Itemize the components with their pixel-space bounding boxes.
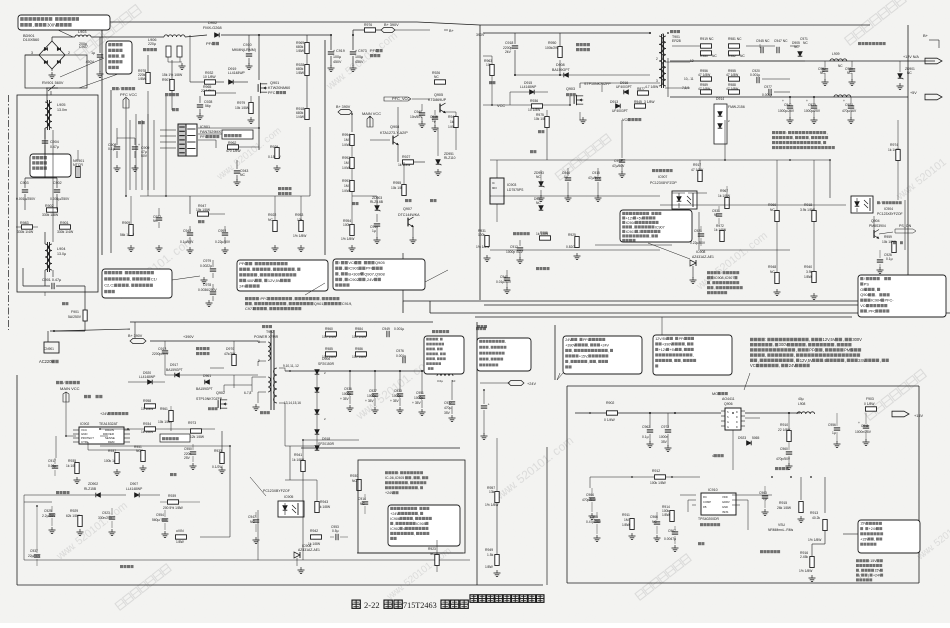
svg-text:100µ: 100µ (355, 55, 363, 59)
wire (358, 440, 360, 483)
svg-text:R993: R993 (342, 179, 350, 183)
svg-text:R950: R950 (548, 41, 556, 45)
svg-text:+390V: +390V (183, 335, 194, 339)
svg-text:R953: R953 (295, 213, 303, 217)
svg-text:L905: L905 (57, 103, 65, 107)
wire (690, 60, 805, 62)
wire (100, 447, 230, 449)
node bus A (403, 300, 870, 302)
wire (618, 412, 644, 414)
wire (771, 477, 773, 486)
label feedback (170, 473, 173, 476)
wire (167, 57, 169, 62)
svg-text:300V: 300V (852, 337, 862, 342)
wire (575, 412, 721, 414)
wire (403, 196, 405, 204)
wire (141, 120, 143, 190)
svg-text:1µ: 1µ (372, 229, 376, 233)
annotation: on/off control (858, 275, 946, 317)
wire (690, 45, 706, 47)
svg-text:POWER XFMR: POWER XFMR (254, 335, 279, 339)
label output sample (278, 187, 281, 190)
IC901 PFC controller (178, 124, 186, 156)
wire (436, 540, 438, 554)
wire (732, 476, 772, 478)
wire (907, 25, 909, 300)
wire (46, 88, 48, 102)
connector CN901 AC input (44, 342, 59, 353)
ground (164, 531, 166, 534)
resistor R955c (540, 236, 551, 240)
svg-text:C960: C960 (780, 447, 788, 451)
svg-text:0.47µ: 0.47µ (50, 145, 59, 149)
svg-text:): ) (868, 573, 869, 577)
ground (274, 245, 276, 248)
ground (879, 267, 881, 270)
wire (700, 249, 790, 251)
svg-text:R959: R959 (884, 235, 892, 239)
ground (248, 63, 250, 66)
wire (482, 150, 484, 152)
annotation: repair hint secondary caps (772, 131, 775, 134)
leader (250, 477, 266, 496)
node B+ 390V (381, 27, 395, 32)
svg-text:1µ: 1µ (832, 431, 836, 435)
svg-text:,: , (412, 476, 413, 480)
wire (76, 450, 78, 462)
svg-text:KTD869UP: KTD869UP (428, 98, 447, 102)
wire (322, 536, 330, 538)
wire (153, 120, 155, 190)
svg-text::PFC: :PFC (259, 296, 268, 301)
ground (412, 237, 414, 240)
svg-text:STP10NK70ZFP: STP10NK70ZFP (584, 82, 611, 86)
svg-text:D914: D914 (716, 97, 724, 101)
wire (364, 514, 366, 518)
svg-text:450V: 450V (355, 60, 364, 64)
optocoupler IC907 (672, 191, 697, 209)
svg-text:,: , (343, 266, 344, 271)
svg-text:IC901: IC901 (200, 125, 210, 129)
ground (656, 535, 658, 538)
wire (762, 78, 790, 80)
ground (596, 535, 598, 538)
wire (351, 114, 353, 132)
svg-text:,: , (505, 340, 506, 344)
wire (577, 321, 775, 323)
svg-text:C947 NC: C947 NC (774, 39, 788, 43)
wire (54, 329, 130, 331)
ground (351, 245, 353, 248)
leader (425, 270, 448, 282)
svg-text:10: 10 (452, 379, 456, 383)
wire (732, 504, 740, 506)
wire (171, 91, 173, 110)
svg-text:,: , (250, 267, 251, 272)
wire (25, 54, 39, 56)
wire (491, 105, 493, 160)
wire (540, 196, 542, 211)
svg-text:450V: 450V (333, 60, 342, 64)
ground (486, 255, 488, 258)
wire (554, 325, 556, 380)
node +12V (925, 58, 942, 64)
svg-text:,: , (394, 522, 395, 526)
svg-text:UF4003PT: UF4003PT (616, 85, 632, 89)
wire (688, 192, 707, 194)
svg-text:R910: R910 (780, 423, 788, 427)
svg-text:D: D (736, 426, 738, 429)
svg-text:ZD902: ZD902 (88, 482, 98, 486)
wire (210, 367, 224, 369)
annotation: repair hint row (856, 574, 859, 577)
svg-text:IC902: IC902 (390, 527, 400, 531)
wire (209, 368, 211, 377)
wire (692, 266, 694, 278)
EMI section border (17, 95, 98, 292)
label startup (489, 81, 492, 84)
svg-text:+ 35V: + 35V (390, 399, 400, 403)
svg-text:10 1/8W: 10 1/8W (203, 75, 216, 79)
svg-text:Q901: Q901 (270, 81, 279, 85)
ground (79, 529, 81, 532)
wire (799, 46, 801, 50)
svg-text:,: , (796, 347, 797, 352)
svg-text:1k 1/8W: 1k 1/8W (318, 505, 331, 509)
wire (198, 427, 200, 429)
svg-text:PFC VCC: PFC VCC (120, 92, 137, 97)
svg-text:G: G (727, 421, 729, 424)
wire (77, 166, 79, 178)
wire (189, 214, 191, 226)
svg-text:LL4148WP: LL4148WP (228, 71, 246, 75)
svg-text:1.5k: 1.5k (487, 553, 494, 557)
svg-text:Q907,Q908: Q907,Q908 (364, 271, 385, 276)
wire (569, 96, 571, 105)
svg-text:IC908: IC908 (626, 221, 636, 225)
wire (790, 45, 800, 47)
wire (621, 120, 623, 150)
svg-text:PFC: PFC (268, 91, 276, 95)
svg-text:C956: C956 (828, 423, 836, 427)
wire (597, 160, 599, 168)
leader (648, 243, 690, 259)
wire (547, 92, 549, 105)
wire (698, 212, 700, 250)
svg-text:PC123X8YFZOP: PC123X8YFZOP (650, 181, 677, 185)
svg-text:1% 1/8W: 1% 1/8W (293, 234, 307, 238)
svg-text:,: , (809, 337, 810, 342)
svg-text:C977: C977 (764, 85, 772, 89)
wire (540, 160, 542, 170)
wire (66, 435, 76, 437)
wire (865, 409, 867, 413)
annotation: repair hint row (750, 359, 753, 362)
ground (692, 277, 694, 280)
wire (221, 431, 223, 452)
svg-text:C903: C903 (20, 181, 29, 185)
svg-text:C962: C962 (642, 425, 650, 429)
wire (646, 91, 650, 93)
svg-text:LL4148WP: LL4148WP (139, 375, 156, 379)
wire (490, 237, 540, 239)
wire (559, 60, 561, 75)
ground (111, 529, 113, 532)
node +24V (508, 380, 524, 385)
svg-text:+15V: +15V (914, 414, 923, 418)
wire (44, 292, 46, 296)
ground (255, 404, 257, 407)
svg-text:Q907: Q907 (403, 207, 412, 211)
wire (56, 203, 58, 210)
wire (589, 413, 591, 477)
ground (181, 63, 183, 66)
diode chain (315, 388, 320, 393)
svg-text:PM8S3904: PM8S3904 (869, 224, 886, 228)
wire (239, 146, 259, 148)
ground (764, 509, 766, 512)
svg-text:,: , (875, 292, 876, 297)
sampling section frame (358, 460, 465, 553)
wire (665, 74, 690, 76)
svg-text:D913: D913 (610, 100, 618, 104)
svg-text:C949: C949 (382, 327, 390, 331)
wire (484, 304, 860, 306)
wire (116, 442, 118, 452)
svg-text:,: , (875, 287, 876, 292)
wire (672, 192, 685, 194)
wire (566, 386, 568, 583)
wire (117, 137, 135, 139)
wire (159, 495, 161, 502)
svg-text:1/8W: 1/8W (296, 71, 305, 75)
wire (799, 50, 801, 58)
wire (215, 140, 217, 148)
svg-text:0.0022µ: 0.0022µ (200, 264, 212, 268)
svg-text:C976: C976 (396, 349, 404, 353)
wire (788, 442, 790, 447)
ground (591, 513, 593, 516)
wire (52, 36, 75, 38)
annotation: overcurrent2 (160, 434, 190, 442)
svg-text:100µ: 100µ (333, 55, 341, 59)
svg-text:D906: D906 (322, 357, 330, 361)
svg-text:,PFC: ,PFC (867, 308, 876, 313)
wire (130, 321, 433, 323)
svg-text:C954: C954 (156, 513, 164, 517)
svg-text:R934: R934 (143, 422, 151, 426)
ground (437, 169, 439, 172)
svg-text:,: , (650, 234, 651, 238)
wire (551, 237, 571, 239)
svg-text:2.45k: 2.45k (800, 555, 808, 559)
wire (303, 439, 359, 441)
ground (158, 245, 160, 248)
wire (746, 45, 775, 47)
svg-text:,: , (258, 272, 259, 277)
svg-text:TEA1532AT: TEA1532AT (99, 422, 119, 426)
svg-text:470p/50V: 470p/50V (776, 457, 791, 461)
annotation: 15V reg note (858, 520, 920, 553)
wire (842, 96, 851, 98)
wire (397, 107, 399, 135)
wire (665, 87, 690, 89)
wire (824, 531, 826, 544)
wire (16, 375, 18, 585)
wire (483, 420, 485, 434)
svg-text:13k: 13k (489, 490, 495, 494)
ground (582, 117, 584, 120)
svg-text:1000µ/25V: 1000µ/25V (778, 109, 795, 113)
svg-text:0 1/8W: 0 1/8W (864, 402, 875, 406)
svg-text:1000µ/25V: 1000µ/25V (804, 109, 821, 113)
wire (296, 558, 298, 566)
svg-text:R955: R955 (393, 181, 401, 185)
svg-text:D: D (736, 411, 738, 414)
wire (540, 190, 542, 196)
svg-text:,: , (489, 357, 490, 361)
svg-text:IC901: IC901 (348, 266, 359, 271)
svg-text:R943: R943 (320, 500, 328, 504)
svg-text:+15V,: +15V, (579, 354, 588, 358)
wire (258, 96, 260, 150)
wire (279, 367, 285, 369)
leader (355, 441, 368, 462)
wire (45, 329, 67, 331)
wire (489, 160, 491, 178)
svg-text:C936: C936 (344, 387, 352, 391)
wire (837, 412, 866, 414)
svg-text:R940: R940 (804, 265, 812, 269)
leader (660, 317, 662, 335)
svg-text:40µ: 40µ (798, 397, 804, 401)
wire (258, 391, 266, 393)
wire (235, 82, 237, 93)
svg-text:MAIN VCC: MAIN VCC (362, 111, 381, 116)
svg-text:R958: R958 (143, 399, 151, 403)
wire (670, 96, 908, 98)
wire (127, 382, 129, 429)
svg-text:C915: C915 (592, 171, 600, 175)
label reg control (120, 565, 123, 568)
svg-text:56p: 56p (205, 104, 211, 108)
svg-text:PFC-: PFC- (885, 298, 895, 303)
transformer T901 (670, 30, 673, 33)
svg-text:IC904: IC904 (884, 207, 893, 211)
svg-text:,: , (596, 360, 597, 364)
label PFC VCC (112, 87, 115, 90)
label secondary cont (477, 325, 480, 328)
svg-text:FB: FB (703, 505, 707, 509)
svg-text:1M: 1M (344, 184, 349, 188)
wire (302, 472, 304, 560)
svg-text:,: , (339, 271, 340, 276)
wire (877, 409, 884, 413)
wire (745, 412, 800, 414)
wire (503, 190, 505, 196)
svg-text::: : (786, 131, 787, 135)
wire (258, 360, 266, 362)
wire (706, 182, 708, 193)
svg-text:,: , (435, 357, 436, 361)
ground (76, 477, 78, 480)
junction (649, 32, 651, 34)
svg-text:,: , (489, 346, 490, 350)
wire (100, 432, 140, 434)
svg-text:,: , (685, 342, 686, 346)
svg-text:10k 1/8W: 10k 1/8W (235, 106, 250, 110)
wire (672, 45, 701, 47)
svg-text:D: D (736, 416, 738, 419)
wire (116, 128, 118, 138)
wire (395, 29, 430, 31)
ground (352, 65, 354, 68)
annotation: repair hint row (750, 338, 753, 341)
wire (160, 129, 176, 131)
svg-text:2-22: 2-22 (364, 600, 380, 610)
svg-text:+: + (138, 143, 140, 147)
svg-text:0.001µ/250V: 0.001µ/250V (16, 197, 36, 201)
annotation: sampling note (620, 210, 692, 242)
svg-text:,: , (262, 278, 263, 283)
svg-text:VCC: VCC (497, 103, 505, 108)
svg-text:Q902: Q902 (216, 391, 225, 395)
wire (44, 203, 46, 227)
svg-text:200 5% 1/8W: 200 5% 1/8W (163, 506, 184, 510)
svg-text:5A/250V: 5A/250V (68, 315, 82, 319)
wire (726, 160, 728, 197)
wire (52, 270, 54, 277)
svg-text:1M: 1M (624, 518, 629, 522)
wire (100, 424, 128, 426)
svg-text:1/4W: 1/4W (342, 143, 351, 147)
wire (670, 60, 935, 62)
capacitor C24 (483, 390, 485, 404)
svg-text:1% 1/8W: 1% 1/8W (341, 237, 355, 241)
svg-text:,: , (714, 286, 715, 290)
svg-text:R911: R911 (622, 513, 630, 517)
svg-text:R992: R992 (342, 156, 350, 160)
svg-text:,: , (572, 349, 573, 353)
svg-text:0.22µ/50V: 0.22µ/50V (690, 241, 706, 245)
annotation: repair hint 24V sampling (385, 471, 388, 474)
svg-text:35V: 35V (661, 440, 668, 444)
annotation: overcurrent (222, 130, 253, 139)
ground (788, 463, 790, 466)
svg-text:3: 3 (31, 51, 33, 55)
wire (165, 96, 167, 196)
svg-text:IC908: IC908 (696, 250, 705, 254)
svg-text:,: , (413, 517, 414, 521)
svg-text:40.2k: 40.2k (812, 516, 820, 520)
label secondary2 (432, 330, 435, 333)
annotation: repair hint row (856, 564, 859, 567)
svg-text:,: , (632, 225, 633, 229)
wire (444, 97, 446, 104)
ground (349, 405, 351, 408)
wire (24, 494, 86, 496)
annotation: repair hint row (750, 343, 753, 346)
svg-text:SP20150R: SP20150R (318, 442, 335, 446)
svg-text:PS: PS (864, 281, 870, 286)
svg-text:,: , (435, 347, 436, 351)
svg-text:+5V: +5V (910, 91, 917, 95)
wire (258, 341, 266, 343)
wire (309, 127, 311, 196)
wire (44, 232, 46, 244)
svg-text:B+: B+ (449, 29, 455, 33)
svg-text:13,14,15,16: 13,14,15,16 (284, 401, 301, 405)
